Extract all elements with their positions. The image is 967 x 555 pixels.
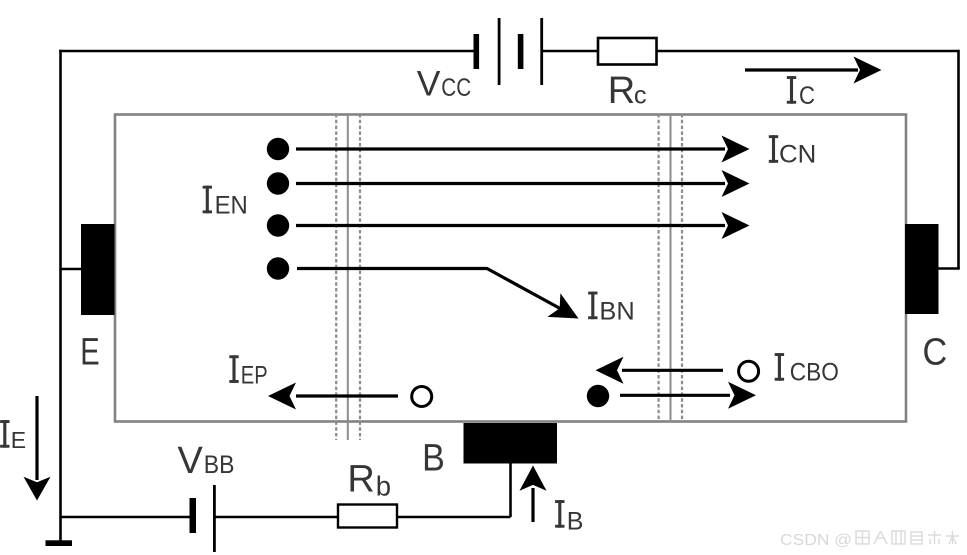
svg-text:E: E <box>11 427 26 453</box>
svg-text:EN: EN <box>215 192 248 220</box>
svg-text:C: C <box>799 82 815 110</box>
svg-text:B: B <box>567 508 584 536</box>
svg-text:b: b <box>376 471 391 502</box>
svg-text:CBO: CBO <box>790 359 839 387</box>
svg-text:BN: BN <box>599 298 634 326</box>
svg-text:E: E <box>80 332 99 374</box>
svg-text:V: V <box>178 440 204 482</box>
svg-text:B: B <box>422 438 445 480</box>
svg-text:EP: EP <box>241 362 268 390</box>
svg-text:R: R <box>608 70 635 112</box>
svg-text:C: C <box>923 332 948 374</box>
svg-text:CSDN @: CSDN @ <box>780 532 852 549</box>
svg-text:R: R <box>347 459 374 501</box>
svg-text:V: V <box>417 64 441 104</box>
svg-text:CC: CC <box>441 74 471 102</box>
svg-text:c: c <box>634 82 647 110</box>
svg-text:BB: BB <box>204 451 235 479</box>
svg-text:CN: CN <box>779 141 816 169</box>
